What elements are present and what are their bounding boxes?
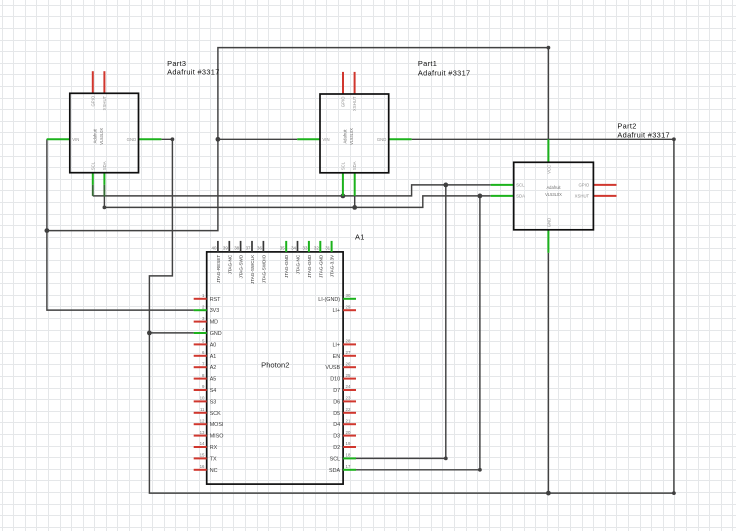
svg-text:GND: GND (210, 331, 222, 337)
pin SDA stub (green) (103, 173, 105, 185)
svg-text:D2: D2 (333, 445, 340, 451)
svg-text:VL53L0X: VL53L0X (99, 128, 104, 145)
svg-text:37: 37 (246, 245, 251, 250)
node GND bend dot at bus right corner (672, 491, 676, 495)
pin VIN stub (green) (47, 138, 70, 140)
svg-text:JTAG-GND: JTAG-GND (307, 254, 312, 278)
pin 3 MD of A1 Photon2 (left stub) (194, 321, 207, 323)
node SDA bend dot at riser bottom (478, 468, 482, 472)
svg-text:JTAG-SWDIO: JTAG-SWDIO (261, 254, 266, 283)
body outline (207, 252, 343, 484)
svg-text:JTAG-GND: JTAG-GND (284, 254, 289, 278)
svg-text:XSHUT: XSHUT (102, 95, 107, 110)
node GND bend dot at corner (672, 137, 676, 141)
svg-text:34: 34 (291, 245, 296, 250)
pin 38 JTAG-SWD of A1 Photon2 (top stub) (240, 241, 242, 252)
body outline (70, 93, 139, 172)
svg-text:32: 32 (314, 245, 319, 250)
svg-text:40: 40 (212, 245, 217, 250)
svg-text:29: 29 (346, 304, 351, 309)
wire VCC net: Part1 VIN branch (218, 138, 297, 140)
svg-text:D7: D7 (333, 388, 340, 394)
pin 26 VUSB of A1 Photon2 (right stub) (343, 366, 356, 368)
svg-text:11: 11 (200, 407, 205, 412)
pin 34 JTAG-NC of A1 Photon2 (top stub) (297, 241, 299, 252)
svg-text:21: 21 (346, 418, 351, 423)
svg-text:16: 16 (200, 464, 205, 469)
svg-text:19: 19 (346, 441, 351, 446)
svg-text:SDA: SDA (329, 468, 340, 474)
svg-text:28: 28 (346, 339, 351, 344)
svg-text:JTAG-3.3V: JTAG-3.3V (330, 254, 335, 277)
svg-text:XSHUT: XSHUT (352, 96, 357, 111)
svg-text:33: 33 (303, 245, 308, 250)
svg-text:A1: A1 (355, 233, 365, 242)
svg-text:JTAG-SWD: JTAG-SWD (239, 254, 244, 278)
pin GND stub (green) (139, 138, 162, 140)
svg-text:VIN: VIN (72, 137, 79, 142)
svg-text:GPIO: GPIO (90, 95, 95, 106)
svg-text:SDA: SDA (352, 161, 357, 170)
pin 17 SDA of A1 Photon2 (right stub) (343, 469, 356, 471)
svg-text:31: 31 (325, 245, 330, 250)
svg-text:GPIO: GPIO (578, 183, 589, 188)
svg-text:GND: GND (546, 218, 551, 228)
svg-text:EN: EN (333, 354, 341, 360)
pin 23 D6 of A1 Photon2 (right stub) (343, 400, 356, 402)
pin 36 JTAG-SWDIO of A1 Photon2 (top stub) (262, 241, 264, 252)
svg-text:GND: GND (377, 137, 387, 142)
svg-text:RX: RX (210, 445, 218, 451)
pin 21 D4 of A1 Photon2 (right stub) (343, 423, 356, 425)
pin 30 LI-(GND) of A1 Photon2 (right stub) (343, 298, 356, 300)
node GND bend dot at Part3 (171, 137, 175, 141)
svg-text:A2: A2 (210, 365, 217, 371)
svg-text:GPIO: GPIO (341, 96, 346, 107)
svg-text:Adafruit: Adafruit (92, 128, 97, 143)
svg-text:LI+: LI+ (332, 342, 340, 348)
svg-text:Photon2: Photon2 (261, 360, 289, 369)
junction VCC at Part1 VIN (216, 137, 221, 142)
svg-text:A1: A1 (210, 354, 217, 360)
svg-text:20: 20 (346, 430, 351, 435)
svg-text:MD: MD (210, 320, 218, 326)
svg-text:XSHUT: XSHUT (575, 194, 590, 199)
pin 31 JTAG-3.3V of A1 Photon2 (top stub) (331, 241, 333, 252)
pin 14 RX of A1 Photon2 (left stub) (194, 446, 207, 448)
pin 35 JTAG-GND of A1 Photon2 (top stub) (285, 241, 287, 252)
pin 13 MISO of A1 Photon2 (left stub) (194, 435, 207, 437)
svg-text:13: 13 (200, 430, 205, 435)
svg-text:JTAG-GND: JTAG-GND (318, 254, 323, 278)
svg-text:JTAG-NC: JTAG-NC (227, 254, 232, 274)
svg-text:SCK: SCK (210, 411, 221, 417)
svg-text:VIN: VIN (322, 137, 329, 142)
svg-text:SDA: SDA (102, 161, 107, 170)
pin XSHUT stub (red) (593, 195, 616, 197)
pin XSHUT stub (red) (103, 71, 105, 93)
svg-text:Adafruit #3317: Adafruit #3317 (617, 130, 670, 139)
svg-text:35: 35 (280, 245, 285, 250)
pin 39 JTAG-NC of A1 Photon2 (top stub) (228, 241, 230, 252)
pin 8 A5 of A1 Photon2 (left stub) (194, 378, 207, 380)
pin SDA stub (green) (491, 195, 514, 197)
svg-text:SCL: SCL (90, 161, 95, 170)
svg-text:27: 27 (346, 350, 351, 355)
svg-text:LI+: LI+ (332, 308, 340, 314)
svg-text:Part2: Part2 (617, 121, 636, 130)
pin 5 A0 of A1 Photon2 (left stub) (194, 343, 207, 345)
svg-text:D10: D10 (330, 377, 340, 383)
svg-text:15: 15 (200, 453, 205, 458)
pin GND stub (green) (547, 230, 549, 253)
svg-text:JTAG-SWCLK: JTAG-SWCLK (250, 254, 255, 284)
svg-text:26: 26 (346, 361, 351, 366)
pin 33 JTAG-GND of A1 Photon2 (top stub) (308, 241, 310, 252)
svg-text:38: 38 (234, 245, 239, 250)
pin 18 SCL of A1 Photon2 (right stub) (343, 457, 356, 459)
pin 27 EN of A1 Photon2 (right stub) (343, 355, 356, 357)
pin VCC stub (green) (547, 139, 549, 162)
wire GND net: down to bottom bus (149, 139, 674, 493)
pin 20 D3 of A1 Photon2 (right stub) (343, 435, 356, 437)
node VCC corner dot (547, 46, 551, 50)
svg-text:Part1: Part1 (418, 59, 437, 68)
junction VCC at 3V3 riser (45, 228, 50, 233)
svg-text:MISO: MISO (210, 434, 224, 440)
svg-text:25: 25 (346, 373, 351, 378)
junction SCL at Part1 (341, 194, 346, 199)
pin 11 SCK of A1 Photon2 (left stub) (194, 412, 207, 414)
pin GPIO stub (red) (92, 71, 94, 93)
svg-text:VL53L0X: VL53L0X (545, 192, 562, 197)
svg-text:A0: A0 (210, 342, 217, 348)
svg-text:Adafruit #3317: Adafruit #3317 (167, 67, 220, 76)
wire GND net: Part2 GND drop (547, 253, 549, 493)
pin 9 S4 of A1 Photon2 (left stub) (194, 389, 207, 391)
svg-text:17: 17 (346, 464, 351, 469)
svg-text:TX: TX (210, 456, 217, 462)
svg-text:23: 23 (346, 396, 351, 401)
body outline (514, 162, 594, 230)
svg-text:S4: S4 (210, 388, 217, 394)
svg-text:D3: D3 (333, 434, 340, 440)
svg-text:22: 22 (346, 407, 351, 412)
svg-text:NC: NC (210, 468, 218, 474)
svg-text:S3: S3 (210, 399, 217, 405)
svg-text:18: 18 (346, 453, 351, 458)
wire SCL net: bus from Part3 to Part2 (93, 185, 491, 196)
svg-text:SDA: SDA (516, 194, 525, 199)
pin SDA stub (green) (354, 173, 356, 196)
pin VIN stub (green) (297, 138, 320, 140)
svg-text:VUSB: VUSB (325, 365, 340, 371)
pin GPIO stub (red) (342, 72, 344, 94)
svg-text:JTAG-NC: JTAG-NC (296, 254, 301, 274)
pin 24 D7 of A1 Photon2 (right stub) (343, 389, 356, 391)
pin SCL stub (green) (342, 173, 344, 196)
node SDA bend dot at Part3 (103, 206, 107, 210)
svg-text:Adafruit: Adafruit (546, 185, 561, 190)
svg-text:SCL: SCL (341, 161, 346, 170)
svg-text:36: 36 (257, 245, 262, 250)
svg-text:39: 39 (223, 245, 228, 250)
pin 28 LI+ of A1 Photon2 (right stub) (343, 343, 356, 345)
wire SDA net: bus from Part3 to Part2 (104, 196, 490, 208)
svg-text:JTAG-RESET: JTAG-RESET (216, 255, 221, 283)
body outline (320, 94, 389, 173)
pin 2 3V3 of A1 Photon2 (left stub) (194, 309, 207, 311)
svg-text:14: 14 (200, 441, 205, 446)
junction SDA at Part1 (352, 205, 357, 210)
svg-text:MOSI: MOSI (210, 422, 224, 428)
wire SDA net: Part1 SDA feed (354, 196, 356, 208)
svg-text:10: 10 (200, 396, 205, 401)
wire SCL net: riser to Photon SCL (356, 185, 446, 459)
svg-text:12: 12 (200, 418, 205, 423)
pin 15 TX of A1 Photon2 (left stub) (194, 457, 207, 459)
svg-text:30: 30 (346, 293, 351, 298)
pin 10 S3 of A1 Photon2 (left stub) (194, 400, 207, 402)
svg-text:RST: RST (210, 297, 221, 303)
junction SCL at riser (443, 183, 448, 188)
pin 25 D10 of A1 Photon2 (right stub) (343, 378, 356, 380)
pin 12 MOSI of A1 Photon2 (left stub) (194, 423, 207, 425)
svg-text:VCC: VCC (546, 165, 551, 174)
svg-text:LI-(GND): LI-(GND) (318, 297, 340, 303)
junction GND at Photon GND (147, 331, 152, 336)
pin GPIO stub (red) (593, 184, 616, 186)
svg-text:D4: D4 (333, 422, 340, 428)
pin 7 A2 of A1 Photon2 (left stub) (194, 366, 207, 368)
pin 1 RST of A1 Photon2 (left stub) (194, 298, 207, 300)
svg-text:SCL: SCL (516, 183, 525, 188)
pin GND stub (green) (389, 138, 412, 140)
svg-text:24: 24 (346, 384, 351, 389)
svg-text:D6: D6 (333, 399, 340, 405)
pin 32 JTAG-GND of A1 Photon2 (top stub) (319, 241, 321, 252)
wire SDA net: riser to Photon SDA (356, 196, 480, 470)
pin 6 A1 of A1 Photon2 (left stub) (194, 355, 207, 357)
svg-text:GND: GND (127, 137, 137, 142)
junction GND at Part2 drop (546, 491, 551, 496)
svg-text:D5: D5 (333, 411, 340, 417)
pin XSHUT stub (red) (354, 72, 356, 94)
pin 4 GND of A1 Photon2 (left stub) (194, 332, 207, 334)
svg-text:Adafruit: Adafruit (343, 129, 348, 144)
pin 37 JTAG-SWCLK of A1 Photon2 (top stub) (251, 241, 253, 252)
svg-text:VL53L0X: VL53L0X (349, 128, 354, 145)
pin 29 LI+ of A1 Photon2 (right stub) (343, 309, 356, 311)
pin SCL stub (green) (491, 184, 514, 186)
wire GND net: Part3 GND to junction staircase (149, 139, 193, 333)
pin 22 D5 of A1 Photon2 (right stub) (343, 412, 356, 414)
svg-text:3V3: 3V3 (210, 308, 220, 314)
wire VCC net: branch to Part1/Part2 (47, 48, 549, 231)
node SCL bend dot at riser bottom (444, 457, 448, 461)
pin 40 JTAG-RESET of A1 Photon2 (top stub) (217, 241, 219, 252)
junction SDA at riser (478, 194, 483, 199)
svg-text:A5: A5 (210, 377, 217, 383)
wire VCC net: Part3 VIN riser (47, 139, 194, 310)
pin 16 NC of A1 Photon2 (left stub) (194, 469, 207, 471)
pin 19 D2 of A1 Photon2 (right stub) (343, 446, 356, 448)
svg-text:Adafruit #3317: Adafruit #3317 (418, 68, 471, 77)
svg-text:SCL: SCL (330, 456, 341, 462)
pin SCL stub (green) (92, 173, 94, 185)
